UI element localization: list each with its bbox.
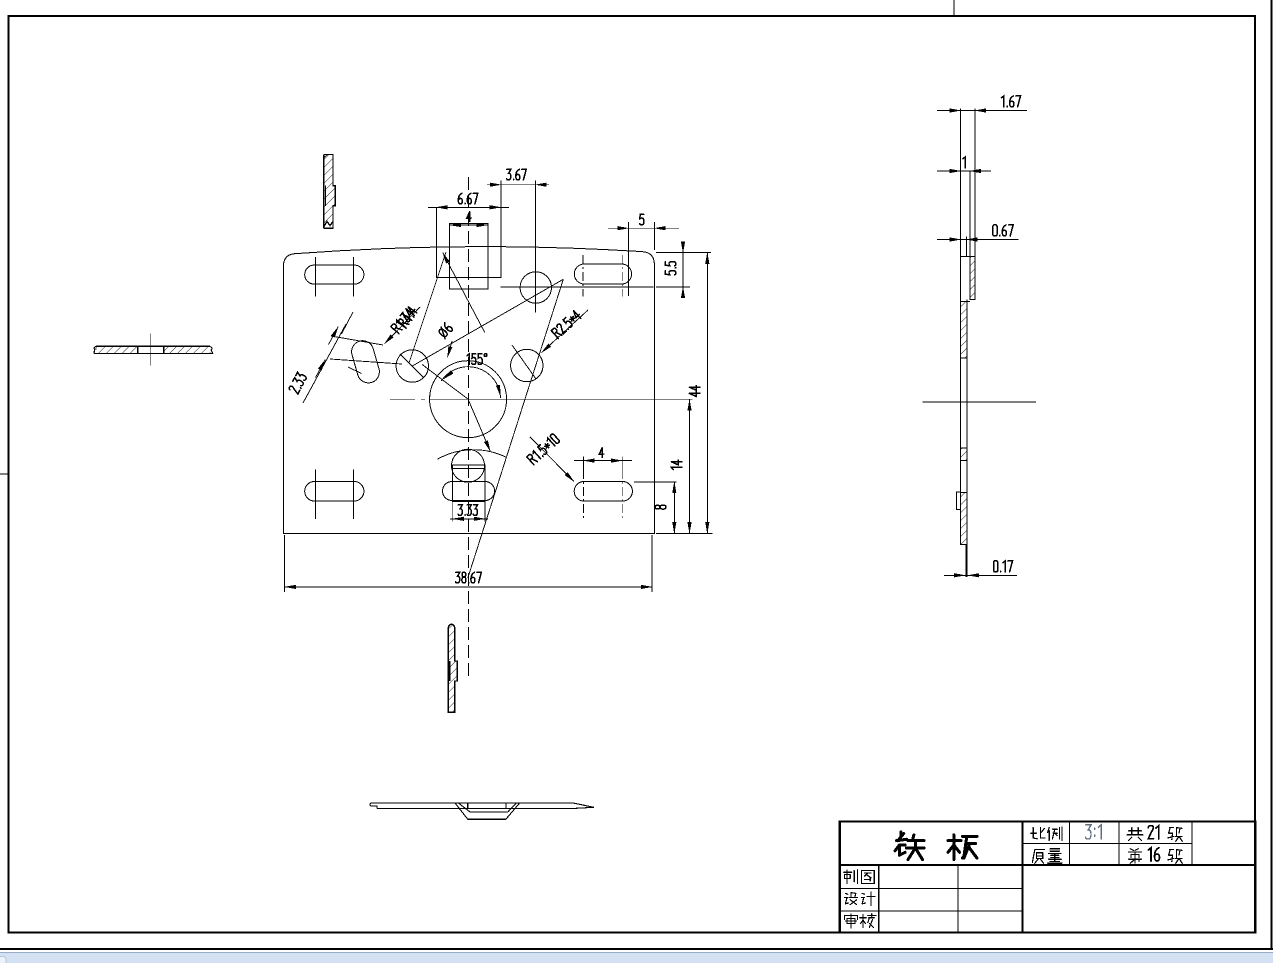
title text 铁 板 xyxy=(895,832,977,860)
label 比例 xyxy=(1031,827,1062,841)
bar top notch xyxy=(324,155,328,158)
text 38.67 xyxy=(456,572,482,583)
slot top-left xyxy=(305,265,364,284)
text O6 xyxy=(437,322,453,338)
scale value 3:1 xyxy=(1085,825,1101,839)
small circle top-left xyxy=(396,350,428,382)
top tab inner rect xyxy=(450,224,488,290)
dim 14 line xyxy=(689,399,691,533)
side view bar hatch 1 xyxy=(961,302,968,359)
construction line steep long xyxy=(468,279,564,578)
thin section hatch right xyxy=(164,346,211,353)
main plate view xyxy=(283,177,712,680)
top tab outer rect xyxy=(436,208,501,278)
dim 44 bottom ext xyxy=(656,532,713,534)
side view right wall xyxy=(974,109,976,257)
side view bar hatch 2 xyxy=(961,448,968,461)
label 第16张 xyxy=(1129,849,1142,863)
vbar outline xyxy=(448,624,457,712)
bar inner line xyxy=(325,186,327,206)
side view left wall xyxy=(960,109,962,545)
dim 0.17 text xyxy=(994,561,1013,572)
profile outer dip xyxy=(455,803,520,819)
slot top-right xyxy=(574,264,631,284)
dim 2.33 line xyxy=(303,324,346,403)
scrollbar bar xyxy=(0,953,1273,963)
title block left table row 1 xyxy=(840,887,1023,889)
dim 8 line xyxy=(673,482,675,533)
title block left table col 2 xyxy=(957,865,959,933)
dim 1 text xyxy=(963,157,965,168)
dim 38.67 exts xyxy=(284,535,286,592)
profile dip ticks xyxy=(467,803,469,809)
profile left end xyxy=(370,803,377,809)
paper centering tick top xyxy=(953,0,955,16)
bottom rect bend line xyxy=(453,467,485,469)
dim 1 line xyxy=(937,170,991,172)
slot bottom-right xyxy=(574,482,632,502)
title block outer box xyxy=(840,822,1256,933)
dim 0.67 arrows xyxy=(938,239,961,241)
scrollbar top edge xyxy=(0,952,1273,954)
text R1.34 overlapped xyxy=(391,307,415,333)
thin section hatch left xyxy=(96,346,138,353)
tilted slot xyxy=(349,338,382,385)
dim 0.17 line xyxy=(944,574,1017,576)
dim 2.33 ext stub xyxy=(342,312,354,334)
text 3.67 xyxy=(507,169,527,180)
profile inner dip xyxy=(458,803,516,812)
side view bottom thin lip xyxy=(965,545,967,578)
side view bottom close xyxy=(961,544,968,546)
side view inner line 1 xyxy=(969,171,971,300)
angle arc 155 xyxy=(441,367,500,398)
bar outline xyxy=(324,155,335,229)
text 44 xyxy=(689,386,700,397)
dim 1.67 text xyxy=(1002,96,1021,107)
slot top-right ticks xyxy=(582,255,584,297)
dim 4 top line xyxy=(450,224,488,226)
big circle xyxy=(430,361,507,438)
slot bottom-left ticks xyxy=(315,470,317,520)
dim 3.67 line xyxy=(487,184,549,186)
side view left tab rect xyxy=(957,492,961,509)
side view bar right edge xyxy=(966,300,968,546)
dim 5.5 top ext / 44 top ext xyxy=(656,252,711,254)
text 155deg xyxy=(467,354,487,365)
dim 4 bottom exts xyxy=(582,457,584,470)
title block xyxy=(840,822,1256,933)
top circle v-centerline xyxy=(535,255,537,312)
bottom vertical bar section xyxy=(448,624,457,712)
title block small labels xyxy=(844,826,1182,929)
dim 38.67 line xyxy=(285,586,652,588)
label 设计 xyxy=(845,892,875,906)
title block col after 共张 xyxy=(1191,822,1193,866)
text 5.5 xyxy=(665,262,676,275)
tick through TL circle xyxy=(400,354,424,378)
construction line circles xyxy=(412,279,563,366)
dim texts plate xyxy=(288,169,700,583)
dim 0.67 line xyxy=(937,239,1019,241)
slot bottom-right ticks xyxy=(582,470,584,520)
angle leg xyxy=(422,364,468,399)
profile top line xyxy=(371,803,594,807)
tick through TR circle xyxy=(512,345,536,379)
vbar hatch xyxy=(448,624,457,712)
text 14 xyxy=(671,460,682,469)
dim 6.67 line xyxy=(428,206,509,208)
bottom profile view xyxy=(370,803,594,819)
leader R2.5x4 xyxy=(542,310,588,353)
dim 0.67 text xyxy=(993,225,1013,236)
dim 3.67 left ext xyxy=(500,180,502,207)
title block left table col 1 xyxy=(878,865,880,933)
slot side line upper xyxy=(331,336,383,345)
plate outline xyxy=(283,247,654,534)
leader O6 xyxy=(448,341,453,357)
dim 3.33 line xyxy=(450,518,488,520)
scrollbar left button xyxy=(0,957,6,963)
dim 5.5 line xyxy=(682,253,684,288)
slot bottom-left xyxy=(305,482,364,502)
tilted slot stub xyxy=(348,367,362,374)
dim 1.67 arrows xyxy=(938,110,961,112)
side view centerline xyxy=(923,401,1037,403)
side view hatched pocket xyxy=(970,256,975,299)
slot bottom-center xyxy=(443,482,495,501)
title block row line under title xyxy=(840,864,1256,866)
dim 4 bottom line xyxy=(574,460,632,462)
small circle top-right xyxy=(511,349,543,381)
title block col after 比例 xyxy=(1069,822,1071,866)
text 4 top xyxy=(467,212,471,222)
title block col after 3:1 xyxy=(1118,822,1120,866)
thin section inner verticals xyxy=(137,346,139,353)
dim 0.17 arrows xyxy=(945,574,965,576)
title block scale row split xyxy=(1023,843,1193,845)
top circle v-ext to 3.67 xyxy=(535,180,537,255)
dim 1.67 line xyxy=(937,110,1027,112)
label 审核 xyxy=(845,914,876,928)
bottom center rect xyxy=(453,465,485,501)
side view hatch 2 borders xyxy=(961,447,968,449)
top circle h-centerline xyxy=(500,286,653,288)
side view step line xyxy=(961,255,976,257)
profile bottom line xyxy=(377,807,594,808)
dim 1 arrows xyxy=(938,170,961,172)
leader line tab steep xyxy=(409,252,446,363)
slot side line lower xyxy=(330,359,402,364)
leader R1.34 xyxy=(385,307,421,344)
dim 44 line xyxy=(706,253,708,534)
title block divider title/table xyxy=(1022,822,1024,933)
paper right edge xyxy=(1271,0,1273,949)
horizontal centerline xyxy=(390,398,425,400)
title block left table row 2 xyxy=(840,910,1023,912)
dim 8 top ext xyxy=(634,481,677,483)
dim 3.33 exts xyxy=(452,502,454,522)
text 8 xyxy=(655,505,666,509)
text R1.5x10 xyxy=(527,433,560,464)
thin section centerline xyxy=(150,334,152,366)
text R2.5x4 xyxy=(551,309,582,338)
top-left bar section xyxy=(324,155,335,229)
side view inner line 2 xyxy=(966,237,968,257)
leader R1.5x10 xyxy=(530,437,574,482)
dim 5 exts xyxy=(627,222,629,296)
side view bar hatch 3 xyxy=(961,493,968,545)
leader arrow to arc xyxy=(468,399,490,451)
bar hatch xyxy=(324,155,335,228)
text 3.33 xyxy=(458,505,477,516)
dim 5 line xyxy=(608,227,679,229)
text 5 xyxy=(640,214,644,225)
leader arrow to tab corner xyxy=(443,253,485,333)
label 制图 xyxy=(844,870,874,884)
text R4.4 overlapped xyxy=(398,306,418,329)
text 2.33 xyxy=(288,372,306,394)
thin section outline xyxy=(94,346,213,353)
slot top-left ticks xyxy=(315,257,317,297)
label 质量 xyxy=(1032,849,1062,863)
vbar inner line xyxy=(449,661,451,681)
left thin section view xyxy=(94,334,213,366)
small circle bottom xyxy=(452,449,485,482)
text 6.67 xyxy=(458,193,477,204)
label 共21张 xyxy=(1127,828,1143,841)
angle arc arrows xyxy=(444,372,452,379)
dim 5.5 bottom ext xyxy=(656,286,690,288)
side view pocket close xyxy=(961,301,970,303)
text 4 bottom xyxy=(599,448,603,458)
paper centering tick left xyxy=(0,473,8,475)
wide arc over bottom circle xyxy=(437,450,506,459)
right side view xyxy=(923,109,1037,577)
vertical centerline xyxy=(467,177,469,680)
paper bottom edge xyxy=(0,948,1273,950)
small circle top xyxy=(520,272,551,303)
